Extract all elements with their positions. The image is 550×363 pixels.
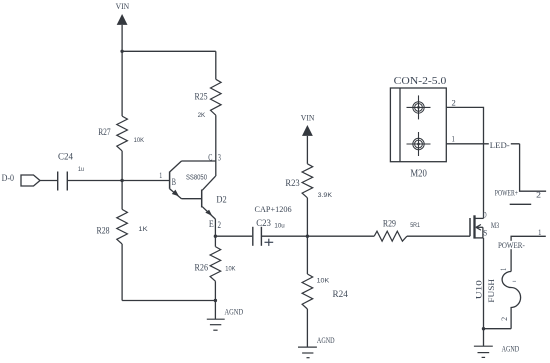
wire R25 to collector <box>215 115 217 176</box>
connector stub line <box>510 203 532 205</box>
svg-text:C24: C24 <box>58 152 73 162</box>
wire R23 to node <box>306 198 308 236</box>
svg-text:LED-: LED- <box>490 140 510 150</box>
svg-text:SS8050: SS8050 <box>186 174 207 181</box>
power VIN (left) <box>116 1 130 51</box>
capacitor C24 <box>58 152 85 191</box>
svg-text:M20: M20 <box>410 168 427 179</box>
svg-text:10u: 10u <box>274 223 285 230</box>
wire VIN rail to R25 <box>215 51 217 79</box>
wire R28 to bottom rail <box>121 244 123 301</box>
wire node to R29 <box>307 235 374 237</box>
wire POWER- stub <box>511 236 546 271</box>
svg-text:3.9K: 3.9K <box>318 192 333 199</box>
svg-text:1: 1 <box>159 171 162 180</box>
svg-text:R29: R29 <box>383 219 397 229</box>
svg-text:CON-2-5.0: CON-2-5.0 <box>394 76 447 87</box>
svg-text:R26: R26 <box>195 262 209 272</box>
wire C24 to transistor base <box>67 180 169 182</box>
wire R24 to ground <box>306 309 308 347</box>
wire VIN horizontal rail <box>122 50 216 52</box>
resistor R27 <box>98 116 145 151</box>
svg-text:5R1: 5R1 <box>410 222 420 229</box>
ground AGND (left) <box>207 301 243 331</box>
svg-text:FUSH: FUSH <box>486 279 496 303</box>
svg-text:2: 2 <box>499 317 509 321</box>
svg-text:10K: 10K <box>225 266 236 273</box>
svg-text:D2: D2 <box>216 195 226 205</box>
connector M20 CON-2-5.0 <box>390 76 446 179</box>
node middle junction <box>306 235 309 238</box>
svg-text:U10: U10 <box>475 280 484 299</box>
svg-text:D: D <box>483 209 487 219</box>
net label LED- <box>489 140 511 150</box>
ground AGND (right) <box>474 329 519 358</box>
node base junction <box>120 179 123 182</box>
wire R29 to gate <box>407 235 470 237</box>
svg-text:POWER-: POWER- <box>498 241 525 250</box>
svg-text:1K: 1K <box>138 226 148 233</box>
svg-text:AGND: AGND <box>225 307 244 316</box>
svg-text:VIN: VIN <box>116 1 130 11</box>
svg-text:E: E <box>209 219 214 229</box>
resistor R24 <box>302 236 348 309</box>
wire R27-R28 vertical <box>121 151 123 210</box>
wire C23 to middle node <box>261 235 307 237</box>
node R26 bottom junction <box>214 299 217 302</box>
wire VIN to R27 <box>121 51 123 116</box>
svg-text:R27: R27 <box>98 127 111 137</box>
svg-text:C23: C23 <box>256 218 271 228</box>
svg-text:2: 2 <box>452 98 456 108</box>
resistor R23 <box>285 164 332 199</box>
svg-text:S: S <box>483 227 487 237</box>
svg-text:CAP+1206: CAP+1206 <box>255 204 292 214</box>
svg-text:M3: M3 <box>491 220 499 230</box>
capacitor C23 CAP+1206 <box>253 204 292 246</box>
svg-text:D-0: D-0 <box>2 173 15 183</box>
wire emitter node to C23 <box>215 235 252 237</box>
svg-text:POWER+: POWER+ <box>495 188 519 197</box>
MOSFET M3 <box>470 209 499 238</box>
net label POWER- <box>497 241 525 250</box>
node emitter junction <box>214 235 217 238</box>
resistor R25 <box>195 79 222 119</box>
svg-text:R23: R23 <box>285 178 300 188</box>
svg-text:1: 1 <box>452 134 455 144</box>
svg-text:R25: R25 <box>195 92 209 102</box>
wire emitter to node <box>214 219 216 236</box>
svg-text:10K: 10K <box>317 278 330 285</box>
transistor D2 SS8050 <box>170 152 227 230</box>
svg-text:1u: 1u <box>78 166 84 173</box>
svg-text:3: 3 <box>218 152 221 162</box>
svg-text:AGND: AGND <box>317 336 335 345</box>
svg-text:AGND: AGND <box>502 345 520 354</box>
wire M20 pin1 to LED- <box>446 143 519 145</box>
port D-0 <box>2 173 57 186</box>
svg-text:2: 2 <box>218 220 222 230</box>
svg-text:B: B <box>172 177 176 187</box>
svg-text:R24: R24 <box>333 290 349 300</box>
node VIN junction <box>120 50 123 53</box>
wire source to ground rail <box>483 238 485 329</box>
svg-text:10K: 10K <box>134 137 145 144</box>
resistor R29 <box>374 219 420 242</box>
svg-text:VIN: VIN <box>301 113 315 123</box>
resistor R28 <box>97 209 149 244</box>
wire LED- to POWER+ stub <box>520 144 547 191</box>
svg-text:1: 1 <box>538 227 541 237</box>
svg-text:1: 1 <box>498 268 508 271</box>
ground AGND (middle) <box>298 336 335 358</box>
fuse U10 FUSH <box>475 268 521 329</box>
svg-text:2K: 2K <box>198 112 206 119</box>
node source-fuse junction <box>482 327 485 330</box>
wire bottom rail <box>122 300 215 302</box>
svg-text:R28: R28 <box>97 225 111 235</box>
svg-text:C: C <box>208 152 212 162</box>
wire M20 pin2 to drain <box>446 107 483 218</box>
svg-text:2: 2 <box>536 190 541 200</box>
wire fuse to ground rail <box>484 328 512 330</box>
resistor R26 <box>195 236 237 300</box>
power VIN (middle) <box>301 113 315 164</box>
